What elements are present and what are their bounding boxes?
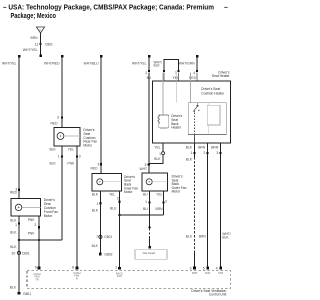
svg-text:G802: G802	[104, 253, 112, 257]
svg-text:BRN: BRN	[156, 207, 164, 211]
rear fan right pin wire (PNK)	[76, 146, 78, 267]
front fan motor symbol	[15, 204, 21, 210]
svg-text:3: 3	[57, 116, 59, 120]
svg-text:YEL: YEL	[173, 76, 179, 80]
svg-text:2: 2	[204, 151, 206, 155]
heater box bottom pin wire W1 (YEL)	[162, 143, 164, 152]
ground G801	[18, 292, 21, 295]
wire 4 continuation down to back outer fan motor	[148, 72, 150, 173]
svg-text:YEL: YEL	[68, 147, 74, 151]
svg-text:R: R	[76, 276, 78, 280]
driver's seat heater outer box	[152, 81, 230, 143]
svg-text:2: 2	[117, 197, 119, 201]
svg-text:WHT/YEL: WHT/YEL	[2, 61, 17, 65]
Not Used box	[135, 250, 167, 260]
driver's seat back inner fan motor box	[92, 174, 122, 192]
thermostat switch	[194, 107, 197, 111]
svg-text:WHT/RED: WHT/RED	[44, 61, 60, 65]
W2 dashed run down to control unit	[194, 157, 196, 252]
terminal into control unit pin 6	[38, 267, 41, 270]
svg-text:1: 1	[190, 151, 192, 155]
svg-text:1: 1	[15, 223, 17, 227]
svg-text:PNK: PNK	[67, 161, 75, 165]
svg-text:BLU: BLU	[110, 207, 117, 211]
svg-text:STR: STR	[218, 271, 223, 275]
rear fan motor symbol	[57, 133, 64, 140]
node: top terminal of wire 1	[18, 55, 21, 58]
svg-text:20: 20	[12, 251, 16, 255]
svg-text:3: 3	[79, 155, 81, 159]
connector stubs into heater box	[163, 72, 165, 81]
inline connector pin 1 on W1	[162, 152, 165, 155]
svg-text:PNK: PNK	[28, 218, 36, 222]
outer fan right pin wire (BRN)	[163, 191, 165, 215]
heater box bottom pin wire W4 (BRN)	[220, 143, 222, 268]
node: top terminal of wire 3	[100, 55, 103, 58]
svg-text:– USA: Technology Package, CMB: – USA: Technology Package, CMBS/PAX Pack…	[3, 5, 214, 12]
svg-text:Cushion Heater: Cushion Heater	[201, 91, 225, 95]
svg-text:11: 11	[35, 43, 39, 47]
svg-text:TR: TR	[35, 277, 39, 281]
svg-text:BLK: BLK	[186, 145, 193, 149]
svg-text:WHT/GRN: WHT/GRN	[179, 61, 195, 65]
terminal into control unit pin 5	[206, 267, 209, 270]
wire from power feed to C801	[40, 33, 42, 55]
svg-text:WHT: WHT	[139, 167, 147, 171]
svg-text:BLK: BLK	[92, 208, 99, 212]
ground G802	[99, 253, 102, 256]
svg-text:Motor: Motor	[44, 214, 53, 218]
svg-text:BLK: BLK	[92, 244, 99, 248]
svg-text:Seat Heater: Seat Heater	[212, 74, 230, 78]
svg-text:1: 1	[115, 265, 117, 269]
svg-text:WHT/YEL: WHT/YEL	[132, 61, 147, 65]
outer fan left pin wire (BU)	[149, 191, 151, 215]
terminal into control unit pin 8	[76, 267, 79, 270]
svg-text:YEL: YEL	[109, 193, 115, 197]
svg-text:3: 3	[217, 151, 219, 155]
svg-text:C801: C801	[104, 235, 112, 239]
connector C801 pin 11	[35, 43, 53, 47]
svg-text:BLK: BLK	[10, 218, 17, 222]
svg-text:G801: G801	[23, 292, 31, 296]
svg-text:2: 2	[165, 200, 167, 204]
front fan right pin wire (PNK)	[38, 216, 40, 268]
internal dashed wire below thermostat	[194, 113, 196, 135]
power feed triangle	[36, 27, 44, 33]
svg-text:Driver's Seat: Driver's Seat	[201, 87, 220, 91]
heater box bottom pin wire W2 (BLK)	[194, 143, 196, 157]
svg-text:BLK: BLK	[49, 161, 56, 165]
svg-text:8: 8	[72, 266, 74, 270]
svg-text:RED: RED	[51, 121, 59, 125]
svg-text:Control Unit: Control Unit	[209, 293, 226, 297]
svg-text:RED: RED	[189, 76, 197, 80]
driver's seat back heater sub-box	[159, 115, 169, 128]
svg-text:BLK: BLK	[10, 230, 17, 234]
junction node where PNK crosses ground bus	[38, 239, 40, 241]
driver's seat cushion rear fan motor box	[54, 128, 80, 147]
inner fan motor symbol	[97, 179, 103, 185]
bus2 wire	[120, 214, 164, 216]
svg-text:1: 1	[159, 152, 161, 156]
junction node on ground bus	[18, 239, 20, 241]
svg-text:BRN: BRN	[211, 145, 219, 149]
inner fan left pin wire (BLK to ground)	[99, 191, 101, 253]
svg-text:3: 3	[98, 163, 100, 167]
svg-text:BLK: BLK	[10, 245, 17, 249]
svg-text:RED: RED	[91, 167, 99, 171]
svg-text:Motor: Motor	[172, 190, 181, 194]
svg-text:2: 2	[145, 71, 147, 75]
svg-text:YEL: YEL	[156, 193, 162, 197]
svg-text:BLK: BLK	[222, 235, 229, 239]
inner fan right pin wire (YEL/BLU)	[119, 191, 121, 215]
svg-text:C801: C801	[45, 43, 53, 47]
pin terminal dots row	[148, 70, 150, 72]
node: feed terminal dot	[39, 55, 42, 58]
svg-text:BLK: BLK	[49, 147, 56, 151]
svg-text:3: 3	[190, 266, 192, 270]
dash-dot drop to Not Used	[149, 215, 151, 227]
node: top terminal of wire 2	[61, 55, 64, 58]
node on inner box top	[197, 105, 199, 107]
svg-text:MTR: MTR	[192, 271, 198, 275]
svg-text:BRN: BRN	[199, 235, 207, 239]
svg-text:WHT/YEL: WHT/YEL	[23, 48, 38, 52]
svg-text:Not Used: Not Used	[143, 251, 156, 255]
svg-text:BLK: BLK	[154, 157, 161, 161]
svg-text:Motor: Motor	[124, 190, 133, 194]
wire 4 vertical to pin 2	[148, 57, 150, 71]
svg-text:4: 4	[193, 71, 195, 75]
back heater squiggle	[158, 115, 160, 124]
heater element block	[207, 105, 220, 125]
svg-text:Package; Mexico: Package; Mexico	[11, 13, 57, 20]
svg-text:WHT/BLU: WHT/BLU	[84, 61, 99, 65]
svg-text:BLK: BLK	[186, 157, 193, 161]
ground bus wire	[19, 239, 62, 241]
svg-text:BRN: BRN	[198, 145, 206, 149]
svg-text:BLK: BLK	[10, 286, 17, 290]
front fan left pin wire (BLK to ground)	[18, 216, 20, 293]
svg-text:RED: RED	[10, 191, 18, 195]
wire 1 (WHT/YEL) vertical	[18, 57, 20, 199]
svg-text:7: 7	[96, 235, 98, 239]
svg-text:PNK: PNK	[28, 232, 36, 236]
wire 2 (WHT/RED) vertical	[61, 57, 63, 128]
heater box bottom pin wire W3 (BRN)	[207, 143, 209, 268]
driver's seat cushion front fan motor box	[11, 199, 40, 216]
svg-text:BU: BU	[143, 193, 148, 197]
svg-text:1: 1	[145, 200, 147, 204]
svg-text:Heater: Heater	[171, 126, 182, 130]
svg-text:6: 6	[35, 266, 37, 270]
connector pin 3 on W1	[148, 164, 150, 166]
svg-text:5: 5	[203, 266, 205, 270]
svg-text:BLK: BLK	[186, 235, 193, 239]
node: top terminal of wire 5	[196, 55, 199, 58]
W1 lower segment with jog to seat back outer fan motor	[149, 155, 163, 164]
svg-text:C801: C801	[22, 251, 30, 255]
wire 5 vertical to pin 4	[196, 57, 198, 71]
wire continues down to control unit pin 1	[119, 215, 121, 268]
terminal into control unit pin 3	[193, 267, 196, 270]
svg-text:1: 1	[97, 202, 99, 206]
wire 3 (WHT/BLU) vertical	[100, 57, 102, 174]
jumper link between connector pins	[164, 60, 179, 71]
svg-text:BU: BU	[147, 76, 152, 80]
terminal into control unit pin 1	[118, 267, 121, 270]
node: top terminal of wire 4	[148, 55, 151, 58]
svg-text:2: 2	[35, 223, 37, 227]
svg-text:BLK: BLK	[92, 193, 99, 197]
svg-text:Motor: Motor	[83, 144, 92, 148]
seat cushion heater inner box	[188, 103, 226, 135]
outer fan motor symbol	[146, 179, 152, 185]
svg-text:1: 1	[58, 155, 60, 159]
control unit dashed box	[27, 271, 231, 289]
terminal into control unit pin 4	[219, 267, 222, 270]
driver's seat back outer fan motor box	[142, 173, 167, 191]
svg-text:4: 4	[216, 266, 218, 270]
svg-text:BRN: BRN	[31, 36, 39, 40]
rear fan left pin wire (BLK ground path)	[61, 146, 63, 240]
junction node on bus2	[118, 214, 120, 216]
svg-text:FAN: FAN	[117, 274, 122, 278]
svg-text:YEL: YEL	[154, 145, 160, 149]
svg-text:BLK: BLK	[154, 64, 161, 68]
svg-text:BU: BU	[143, 207, 148, 211]
svg-text:SNS: SNS	[205, 271, 211, 275]
svg-text:–: –	[224, 5, 228, 12]
internal wire stubs (gray)	[162, 73, 164, 115]
